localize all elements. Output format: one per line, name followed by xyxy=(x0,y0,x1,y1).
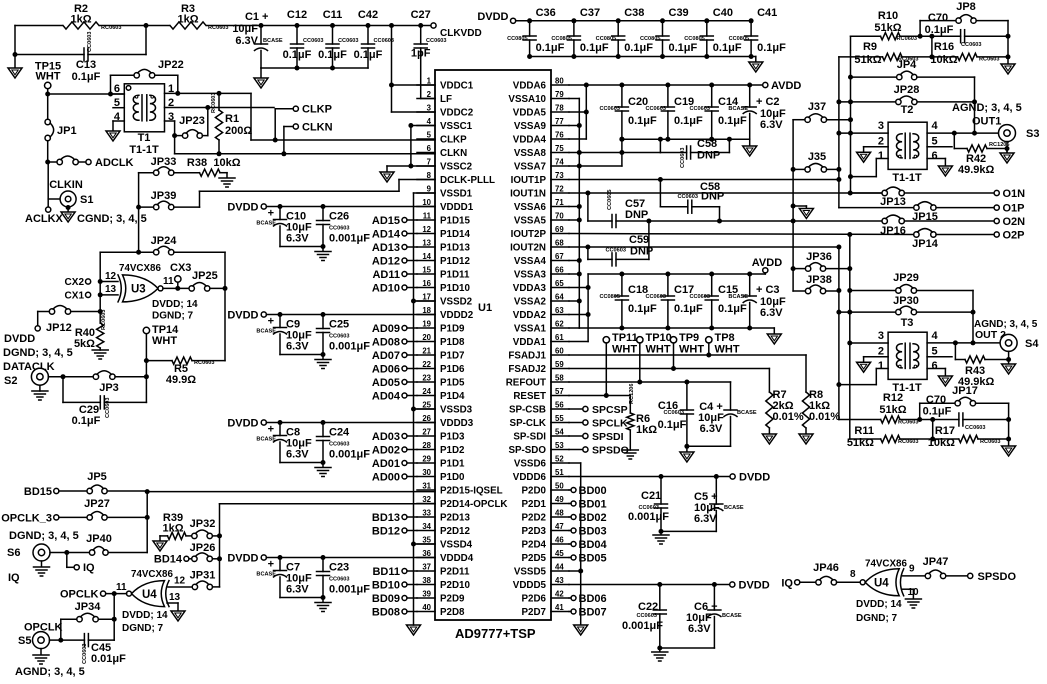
svg-text:JP25: JP25 xyxy=(192,270,218,282)
svg-text:DVDD; 14: DVDD; 14 xyxy=(152,299,198,310)
svg-text:RC0603: RC0603 xyxy=(211,92,217,113)
svg-text:75: 75 xyxy=(555,144,564,153)
wire pin4 VSSC1 to ground xyxy=(411,125,435,127)
caps bottom rail C1-C42 xyxy=(261,67,368,69)
svg-text:TP11: TP11 xyxy=(612,332,638,344)
svg-text:CC0603: CC0603 xyxy=(689,294,710,300)
ground at end of VSSA1 rail xyxy=(773,328,775,334)
jumper JP31 xyxy=(192,584,197,589)
wire JP2 down to S1 xyxy=(47,162,49,207)
wire TP14 stem xyxy=(145,334,147,403)
svg-text:DNP: DNP xyxy=(625,209,648,221)
pin 47 P2D3 stub xyxy=(551,530,569,532)
jumper JP34 xyxy=(113,594,115,641)
svg-text:C27: C27 xyxy=(411,9,431,21)
pin 10 VDDD1 stub xyxy=(417,206,435,208)
pin 52 VSSD6 stub xyxy=(551,462,569,464)
pin 49 P2D1 stub xyxy=(551,503,569,505)
svg-text:200Ω: 200Ω xyxy=(225,125,252,137)
ground under U1 right xyxy=(574,625,588,635)
svg-text:76: 76 xyxy=(555,131,564,140)
pin 6 CLKN stub xyxy=(417,152,435,154)
pin 68 IOUT2N stub xyxy=(551,246,569,248)
svg-text:BD08: BD08 xyxy=(372,607,400,619)
svg-text:3: 3 xyxy=(878,330,884,342)
capacitor C39 xyxy=(660,18,665,23)
svg-text:0.01%: 0.01% xyxy=(809,411,840,423)
svg-text:6.3V: 6.3V xyxy=(235,35,258,47)
svg-text:4: 4 xyxy=(427,117,432,126)
svg-text:C26: C26 xyxy=(329,211,349,223)
svg-text:C40: C40 xyxy=(713,7,733,19)
ground under T1 xyxy=(106,131,120,141)
svg-text:0.1μF: 0.1μF xyxy=(72,71,101,83)
svg-text:C1: C1 xyxy=(245,11,259,23)
svg-text:12: 12 xyxy=(105,271,117,282)
wire C21 C5 bottom xyxy=(661,530,716,532)
svg-text:1: 1 xyxy=(427,77,432,86)
svg-text:55: 55 xyxy=(555,414,564,423)
svg-text:6.3V: 6.3V xyxy=(688,623,711,635)
svg-text:49.9kΩ: 49.9kΩ xyxy=(958,164,995,176)
pin 41 P2D7 stub xyxy=(551,611,569,613)
svg-text:SPCLK: SPCLK xyxy=(592,418,628,430)
svg-text:BD06: BD06 xyxy=(579,593,607,605)
wire IOUT1N row xyxy=(569,192,885,194)
wire REFOUT row xyxy=(569,381,731,383)
svg-text:CC0603: CC0603 xyxy=(329,226,350,232)
svg-text:BD12: BD12 xyxy=(372,526,400,538)
svg-text:CC0603: CC0603 xyxy=(636,613,657,619)
pin 58 REFOUT stub xyxy=(551,381,569,383)
terminal DVDD right low xyxy=(730,582,735,587)
svg-text:VSSA3: VSSA3 xyxy=(514,270,547,281)
VDDA bus lower xyxy=(587,274,589,342)
pin 69 IOUT2P stub xyxy=(551,233,569,235)
jumper JP1 xyxy=(47,94,49,120)
svg-text:P2D12: P2D12 xyxy=(440,526,471,537)
svg-text:C36: C36 xyxy=(536,7,556,19)
caps C36-C41 bottom rail xyxy=(530,56,756,58)
svg-text:C13: C13 xyxy=(76,59,96,71)
wire VSSD bus vertical xyxy=(414,192,436,194)
pin 13 P1D13 stub xyxy=(417,246,435,248)
svg-text:AVDD: AVDD xyxy=(771,80,801,92)
svg-text:C41: C41 xyxy=(757,7,777,19)
svg-text:VSSA2: VSSA2 xyxy=(514,297,547,308)
svg-text:CC0805: CC0805 xyxy=(596,36,617,42)
svg-text:VSSC1: VSSC1 xyxy=(440,121,473,132)
ground under U1 left xyxy=(407,625,421,635)
svg-text:JP17: JP17 xyxy=(952,385,978,397)
svg-text:59: 59 xyxy=(555,360,564,369)
svg-text:AD03: AD03 xyxy=(372,431,400,443)
pin 5 CLKP stub xyxy=(417,138,435,140)
capacitor C8 xyxy=(279,423,281,436)
svg-text:0.1μF: 0.1μF xyxy=(354,49,383,61)
svg-text:14: 14 xyxy=(422,252,431,261)
svg-text:DVDD: DVDD xyxy=(477,11,508,23)
resistor R11 xyxy=(850,438,881,440)
svg-text:CC0603: CC0603 xyxy=(645,106,666,112)
terminal DVDD left xyxy=(35,326,40,331)
pin 9 VSSD1 stub xyxy=(417,192,435,194)
capacitor C17 xyxy=(667,274,669,296)
pin 77 VSSA9 stub xyxy=(551,125,569,127)
pin 30 P1D0 stub xyxy=(417,476,435,478)
svg-text:0.1μF: 0.1μF xyxy=(718,303,747,315)
svg-text:17: 17 xyxy=(422,293,431,302)
svg-text:VSSA7: VSSA7 xyxy=(514,162,547,173)
wire jumper bus vertical xyxy=(146,491,148,553)
jumper JP2 xyxy=(45,160,50,165)
svg-text:+ C3: + C3 xyxy=(756,284,780,296)
pin 79 VSSA10 stub xyxy=(551,98,569,100)
svg-text:BD05: BD05 xyxy=(579,553,607,565)
svg-text:REFOUT: REFOUT xyxy=(506,378,546,389)
svg-text:DGND; 7: DGND; 7 xyxy=(856,613,898,624)
svg-text:28: 28 xyxy=(422,441,431,450)
ground under C16 xyxy=(686,446,688,452)
connector S3 OUT1 xyxy=(999,125,1016,142)
svg-text:AD14: AD14 xyxy=(372,229,401,241)
wire net B2 vertical IOUT2P xyxy=(849,235,851,440)
svg-text:VDDD1: VDDD1 xyxy=(440,202,474,213)
svg-text:AD10: AD10 xyxy=(372,283,400,295)
capacitor C10 xyxy=(279,207,281,220)
svg-text:AVDD: AVDD xyxy=(752,257,782,269)
pin 53 SP-SDO stub xyxy=(551,449,569,451)
ground under R16 xyxy=(1007,57,1009,64)
ground under caps xyxy=(315,251,331,253)
pin 72 IOUT1N stub xyxy=(551,192,569,194)
svg-text:50: 50 xyxy=(555,482,564,491)
svg-text:74: 74 xyxy=(555,158,564,167)
svg-text:P1D7: P1D7 xyxy=(440,351,465,362)
svg-text:31: 31 xyxy=(422,482,431,491)
pin 22 P1D6 stub xyxy=(417,368,435,370)
svg-text:VDDA4: VDDA4 xyxy=(513,135,547,146)
pin 48 P2D2 stub xyxy=(551,516,569,518)
ground under R38 xyxy=(219,177,235,179)
svg-text:J35: J35 xyxy=(808,151,826,163)
svg-text:CC0603: CC0603 xyxy=(689,106,710,112)
svg-text:VDDD4: VDDD4 xyxy=(440,553,474,564)
svg-text:DGND; 7: DGND; 7 xyxy=(152,311,194,322)
U4 left pin12 wire xyxy=(168,586,192,588)
pin 45 P2D5 stub xyxy=(551,557,569,559)
svg-text:20: 20 xyxy=(422,333,431,342)
svg-text:64: 64 xyxy=(555,293,564,302)
svg-text:VDDA6: VDDA6 xyxy=(513,81,547,92)
capacitor C19 xyxy=(667,85,669,107)
svg-text:JP8: JP8 xyxy=(956,1,976,13)
pin 44 VSSD5 stub xyxy=(551,570,569,572)
pin 35 VSSD4 stub xyxy=(417,543,435,545)
ground under S3 xyxy=(1005,146,1010,151)
svg-text:JP34: JP34 xyxy=(75,601,102,613)
svg-text:P2D5: P2D5 xyxy=(521,553,546,564)
pin 70 VSSA5 stub xyxy=(551,219,569,221)
jumper JP32 xyxy=(192,533,197,538)
svg-text:S6: S6 xyxy=(7,547,20,559)
pin 3 VDDC2 stub xyxy=(417,111,435,113)
capacitor C15 xyxy=(711,274,713,296)
svg-text:IOUT2P: IOUT2P xyxy=(511,229,547,240)
svg-text:IQ: IQ xyxy=(8,572,20,584)
svg-text:T1-1T: T1-1T xyxy=(892,172,922,184)
svg-text:1kΩ: 1kΩ xyxy=(177,14,198,26)
OUT2 row xyxy=(927,342,1000,344)
svg-text:5: 5 xyxy=(932,136,938,148)
svg-text:0.1μF: 0.1μF xyxy=(713,42,742,54)
svg-text:BCASE: BCASE xyxy=(724,505,744,511)
svg-text:P2D8: P2D8 xyxy=(440,607,465,618)
svg-text:34: 34 xyxy=(422,522,431,531)
U4 left pin13 wire xyxy=(167,602,178,604)
T2 pin5 stub xyxy=(927,146,952,148)
svg-text:21: 21 xyxy=(422,347,431,356)
resistor R10 xyxy=(851,35,881,37)
pin 59 FSADJ2 stub xyxy=(551,368,569,370)
svg-text:6: 6 xyxy=(114,83,120,95)
pin 40 P2D8 stub xyxy=(417,611,435,613)
svg-text:AD9777+TSP: AD9777+TSP xyxy=(455,626,536,641)
svg-text:JP23: JP23 xyxy=(179,115,205,127)
svg-text:O1P: O1P xyxy=(1003,203,1025,215)
ground CGND under S1 xyxy=(61,212,75,222)
svg-text:P2D14-OPCLK: P2D14-OPCLK xyxy=(440,499,508,510)
svg-text:AD11: AD11 xyxy=(372,269,400,281)
resistor R2 xyxy=(63,20,99,31)
svg-text:FSADJ2: FSADJ2 xyxy=(508,364,546,375)
capacitor C41 xyxy=(749,18,754,23)
svg-text:39: 39 xyxy=(422,590,431,599)
pin 56 SP-CSB stub xyxy=(551,408,569,410)
terminal BD05 xyxy=(571,555,576,560)
svg-text:JP40: JP40 xyxy=(86,533,112,545)
svg-text:VSSA5: VSSA5 xyxy=(514,216,547,227)
svg-text:RC0603: RC0603 xyxy=(101,25,122,31)
pin 15 P1D11 stub xyxy=(417,273,435,275)
svg-text:R10: R10 xyxy=(878,10,898,22)
svg-text:JP29: JP29 xyxy=(893,272,919,284)
svg-text:VSSD4: VSSD4 xyxy=(440,540,473,551)
svg-text:BCASE: BCASE xyxy=(256,221,276,227)
svg-text:49: 49 xyxy=(555,495,564,504)
svg-text:6.3V: 6.3V xyxy=(286,341,309,353)
svg-text:23: 23 xyxy=(422,374,431,383)
resistor R17 xyxy=(959,435,978,442)
pin 63 VDDA2 stub xyxy=(551,314,569,316)
svg-text:CC0605: CC0605 xyxy=(607,189,613,210)
svg-text:CLKP: CLKP xyxy=(440,135,467,146)
VDDA bus upper xyxy=(585,85,587,139)
ground under caps xyxy=(315,359,331,361)
svg-text:24: 24 xyxy=(422,387,431,396)
pin 17 VSSD2 stub xyxy=(417,300,435,302)
capacitor C7 xyxy=(279,558,281,571)
wire pin7 VSSC2 to ground xyxy=(387,165,435,167)
XOR gate U4 74VCX86 right xyxy=(860,580,865,585)
ground under C41 rail xyxy=(755,57,757,63)
jumper JP47 xyxy=(925,573,930,578)
svg-text:0.001μF: 0.001μF xyxy=(329,584,370,596)
svg-text:79: 79 xyxy=(555,90,564,99)
svg-text:CC0805: CC0805 xyxy=(729,36,750,42)
wire C22 C6 bottom xyxy=(660,647,715,649)
T2 pin2 wire to ground xyxy=(864,146,889,148)
svg-text:VDDA5: VDDA5 xyxy=(513,108,547,119)
svg-text:37: 37 xyxy=(422,563,431,572)
svg-text:OPCLK_3: OPCLK_3 xyxy=(1,513,52,525)
jumper JP22 xyxy=(110,75,112,94)
svg-text:0.1μF: 0.1μF xyxy=(923,406,952,418)
pin 8 DCLK-PLLL stub xyxy=(417,179,435,181)
VSSA bus upper xyxy=(569,98,579,100)
svg-text:0.1μF: 0.1μF xyxy=(580,42,609,54)
terminal CLKVDD xyxy=(431,23,436,28)
svg-text:DVDD; 14: DVDD; 14 xyxy=(856,599,902,610)
svg-text:IOUT1P: IOUT1P xyxy=(511,175,547,186)
pin 28 P1D2 stub xyxy=(417,449,435,451)
wire VSSA8 row to caps rail xyxy=(579,152,660,154)
svg-text:CLKN: CLKN xyxy=(302,122,333,134)
svg-text:51kΩ: 51kΩ xyxy=(847,437,874,449)
capacitor C24 xyxy=(322,423,324,437)
ground at top left xyxy=(14,55,16,69)
svg-text:6.3V: 6.3V xyxy=(286,449,309,461)
svg-text:T2: T2 xyxy=(901,104,914,116)
caps bottom rail C20-C2 xyxy=(622,138,750,140)
svg-text:BCASE: BCASE xyxy=(728,106,748,112)
transformer T1 xyxy=(124,84,164,132)
svg-text:SPSDO: SPSDO xyxy=(978,571,1017,583)
svg-text:0.1μF: 0.1μF xyxy=(674,115,703,127)
svg-text:18: 18 xyxy=(422,306,431,315)
ground under caps xyxy=(315,602,331,604)
svg-text:BD07: BD07 xyxy=(579,607,607,619)
connector S4 OUT2 xyxy=(1000,334,1017,351)
svg-text:BD13: BD13 xyxy=(372,512,400,524)
svg-text:CC0805: CC0805 xyxy=(599,294,620,300)
svg-text:74VCX86: 74VCX86 xyxy=(131,569,173,580)
wire RESET row xyxy=(569,395,630,397)
svg-text:68: 68 xyxy=(555,239,564,248)
svg-text:CC0805: CC0805 xyxy=(684,36,705,42)
svg-text:P1D12: P1D12 xyxy=(440,256,471,267)
svg-text:22: 22 xyxy=(422,360,431,369)
resistor R5 xyxy=(146,360,172,362)
svg-text:8: 8 xyxy=(427,171,432,180)
capacitor C16 xyxy=(686,382,688,410)
svg-text:CC0603: CC0603 xyxy=(599,106,620,112)
svg-text:VSSC2: VSSC2 xyxy=(440,162,473,173)
svg-text:WHT: WHT xyxy=(152,335,177,347)
ground at T3 pin2 xyxy=(857,362,871,372)
svg-text:19: 19 xyxy=(422,320,431,329)
svg-text:VSSD1: VSSD1 xyxy=(440,189,473,200)
svg-text:C59: C59 xyxy=(629,234,649,246)
capacitor C3 xyxy=(749,274,751,296)
T3 pin6 wire to ground xyxy=(927,368,945,370)
resistor R7 xyxy=(768,369,770,393)
resistor R1 xyxy=(215,110,222,140)
ground at T2 pin6 xyxy=(938,166,952,176)
T2 pin3 wire xyxy=(839,132,888,134)
svg-text:IQ: IQ xyxy=(781,577,793,589)
svg-text:AGND; 3, 4, 5: AGND; 3, 4, 5 xyxy=(952,102,1022,114)
svg-text:6.3V: 6.3V xyxy=(760,119,783,131)
svg-text:BD14: BD14 xyxy=(154,554,183,566)
capacitor C1 xyxy=(259,23,264,28)
svg-text:AD07: AD07 xyxy=(372,350,400,362)
svg-text:3: 3 xyxy=(878,120,884,132)
U4 left input wire xyxy=(127,591,132,596)
svg-text:P1D14: P1D14 xyxy=(440,229,471,240)
terminal BD03 xyxy=(571,528,576,533)
svg-text:AD01: AD01 xyxy=(372,458,400,470)
wire net A vertical IOUT1P xyxy=(838,57,840,208)
terminal BD04 xyxy=(571,542,576,547)
svg-text:61: 61 xyxy=(555,333,564,342)
svg-text:JP38: JP38 xyxy=(806,274,832,286)
capacitor C59 DNP xyxy=(587,247,589,259)
svg-text:0.1μF: 0.1μF xyxy=(718,115,747,127)
svg-text:69: 69 xyxy=(555,225,564,234)
capacitor C29 xyxy=(62,377,64,403)
svg-text:C70: C70 xyxy=(926,394,946,406)
svg-text:C21: C21 xyxy=(641,490,661,502)
svg-text:VSSA1: VSSA1 xyxy=(514,324,547,335)
wire VDDC rail to pin1 pin3 xyxy=(389,23,394,28)
capacitor C23 xyxy=(322,558,324,572)
svg-text:DNP: DNP xyxy=(701,191,724,203)
wire net A2 vertical IOUT2N xyxy=(838,247,840,420)
jumper JP27 xyxy=(87,515,92,520)
svg-text:AD15: AD15 xyxy=(372,215,400,227)
wire caps bottom xyxy=(280,246,323,248)
jumper JP8 xyxy=(919,21,921,37)
svg-text:SP-SDI: SP-SDI xyxy=(513,432,546,443)
terminal DVDD right mid xyxy=(730,474,735,479)
svg-text:DNP: DNP xyxy=(697,150,720,162)
AVDD rail pin80 xyxy=(569,84,763,86)
svg-text:DVDD: DVDD xyxy=(227,553,258,565)
svg-text:TP9: TP9 xyxy=(679,332,699,344)
svg-text:RC0603: RC0603 xyxy=(980,439,1001,445)
svg-text:CLKIN: CLKIN xyxy=(49,179,83,191)
jumper JP14 xyxy=(914,232,919,237)
wire JP24 right vertical xyxy=(224,252,226,288)
svg-text:DGND; 7: DGND; 7 xyxy=(122,623,164,634)
svg-text:JP36: JP36 xyxy=(806,251,832,263)
ground under R7 xyxy=(762,434,776,444)
svg-text:P2D9: P2D9 xyxy=(440,594,465,605)
pin 14 P1D12 stub xyxy=(417,260,435,262)
wire left drop to ground xyxy=(14,26,16,55)
svg-text:VDDD2: VDDD2 xyxy=(440,310,474,321)
svg-text:72: 72 xyxy=(555,185,564,194)
svg-text:R17: R17 xyxy=(935,425,955,437)
svg-text:BD02: BD02 xyxy=(579,512,607,524)
svg-text:VDDC2: VDDC2 xyxy=(440,108,474,119)
svg-text:CC0805: CC0805 xyxy=(551,36,572,42)
svg-text:32: 32 xyxy=(422,495,431,504)
svg-text:26: 26 xyxy=(422,414,431,423)
wire FSADJ1 row to R8 xyxy=(569,354,806,356)
capacitor C18 xyxy=(621,274,623,296)
